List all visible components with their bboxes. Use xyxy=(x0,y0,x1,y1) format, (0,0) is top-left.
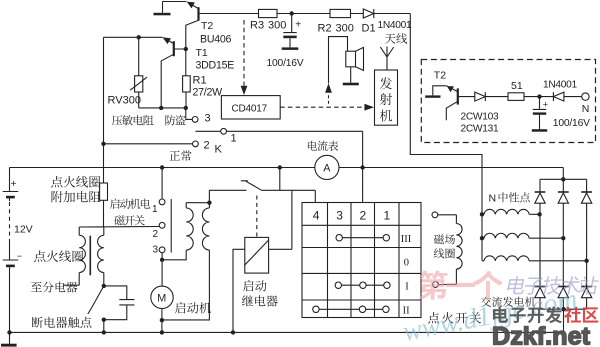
svg-text:D1: D1 xyxy=(362,23,376,35)
svg-text:N: N xyxy=(582,103,590,115)
svg-text:N: N xyxy=(489,193,497,205)
svg-text:I: I xyxy=(405,282,409,293)
svg-text:2CW103: 2CW103 xyxy=(461,112,499,123)
svg-text:R2: R2 xyxy=(318,23,332,35)
svg-text:2: 2 xyxy=(204,140,210,152)
svg-text:27/2W: 27/2W xyxy=(193,87,223,99)
svg-text:−: − xyxy=(17,251,22,261)
svg-text:300: 300 xyxy=(268,20,286,32)
svg-text:3: 3 xyxy=(336,209,343,223)
svg-text:K: K xyxy=(215,144,223,156)
svg-text:0: 0 xyxy=(404,258,409,269)
svg-text:+: + xyxy=(295,20,301,31)
svg-text:R3: R3 xyxy=(250,20,264,32)
svg-text:1: 1 xyxy=(384,209,391,223)
svg-text:A: A xyxy=(323,163,331,175)
svg-text:300: 300 xyxy=(336,23,354,35)
svg-text:+: + xyxy=(11,179,17,190)
svg-text:3: 3 xyxy=(205,113,211,125)
svg-text:T2: T2 xyxy=(434,70,446,82)
svg-text:1: 1 xyxy=(231,133,237,145)
svg-text:2: 2 xyxy=(153,229,159,240)
svg-text:3DD15E: 3DD15E xyxy=(196,60,235,72)
svg-text:1: 1 xyxy=(152,204,158,215)
svg-text:51: 51 xyxy=(511,80,523,92)
svg-text:2CW131: 2CW131 xyxy=(461,124,499,135)
svg-text:CD4017: CD4017 xyxy=(232,104,268,115)
svg-text:Dzkf.net: Dzkf.net xyxy=(492,323,591,347)
svg-text:BU406: BU406 xyxy=(200,34,231,46)
svg-text:100/16V: 100/16V xyxy=(553,118,590,129)
svg-text:1N4001: 1N4001 xyxy=(543,80,578,91)
svg-text:T1: T1 xyxy=(196,47,208,59)
svg-text:4: 4 xyxy=(313,209,320,223)
svg-text:12V: 12V xyxy=(14,224,33,236)
svg-text:+: + xyxy=(543,100,548,110)
svg-text:M: M xyxy=(157,293,166,305)
svg-text:R1: R1 xyxy=(193,75,207,87)
svg-text:3: 3 xyxy=(153,245,159,256)
svg-text:RV300: RV300 xyxy=(108,95,141,107)
svg-text:100/16V: 100/16V xyxy=(267,58,304,69)
svg-text:2: 2 xyxy=(360,209,367,223)
svg-text:T2: T2 xyxy=(201,20,213,32)
svg-text:1N4001: 1N4001 xyxy=(378,20,413,31)
svg-text:III: III xyxy=(401,234,412,245)
